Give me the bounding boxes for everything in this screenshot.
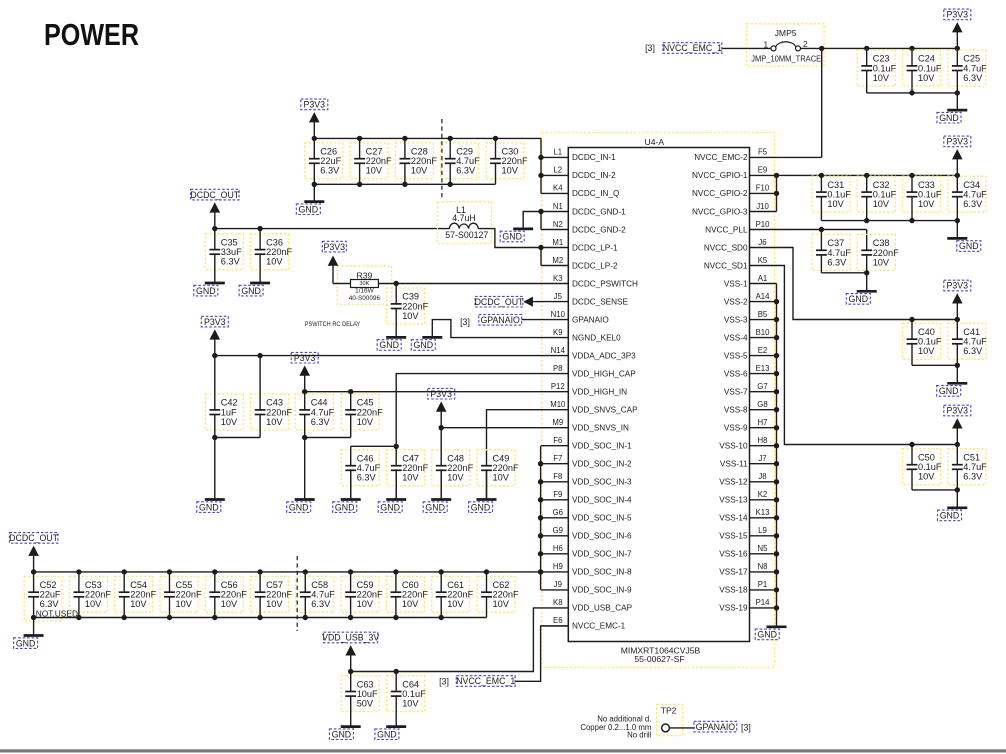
svg-text:10V: 10V	[918, 472, 935, 482]
svg-text:DCDC_OUT: DCDC_OUT	[9, 533, 58, 543]
svg-text:DCDC_GND-2: DCDC_GND-2	[572, 225, 626, 234]
capacitor C54	[115, 572, 157, 618]
note TP2 drill	[580, 715, 651, 740]
svg-text:J5: J5	[554, 292, 563, 301]
junction dot C47 top	[394, 444, 399, 449]
svg-text:C48: C48	[447, 454, 464, 464]
wire C26 bank top rail to DCDC_IN	[314, 138, 541, 193]
svg-text:C61: C61	[447, 580, 464, 590]
svg-text:6.3V: 6.3V	[963, 472, 983, 482]
pin G8 VSS-8	[724, 400, 777, 415]
ground net label GND	[938, 510, 962, 521]
ground	[386, 726, 406, 728]
pin J10 NVCC_GPIO-3	[692, 202, 777, 217]
pin K9 NGND_KEL0	[541, 328, 621, 343]
svg-text:VDD_SNVS_CAP: VDD_SNVS_CAP	[572, 406, 638, 415]
wire VDD_SOC_IN bus	[540, 446, 542, 590]
svg-text:4.7uF: 4.7uF	[311, 590, 335, 600]
svg-text:10V: 10V	[366, 166, 383, 176]
net label P3V3	[291, 352, 318, 363]
ground net label GND	[239, 285, 263, 296]
svg-text:J9: J9	[554, 580, 562, 589]
svg-text:VDD_SOC_IN-1: VDD_SOC_IN-1	[572, 442, 632, 451]
svg-text:NVCC_GPIO-3: NVCC_GPIO-3	[692, 207, 748, 216]
net label DCDC_OUT	[9, 533, 58, 544]
svg-text:10V: 10V	[411, 166, 428, 176]
svg-text:VDD_USB_3V: VDD_USB_3V	[322, 633, 379, 643]
inductor L1 boundary	[437, 202, 491, 244]
ground	[250, 282, 270, 284]
net label P3V3	[428, 388, 455, 399]
capacitor C31	[812, 175, 851, 220]
dnp boundary dashed line (C58)	[296, 556, 298, 631]
svg-text:6.3V: 6.3V	[311, 599, 331, 609]
svg-text:10V: 10V	[493, 473, 510, 483]
svg-text:VSS-7: VSS-7	[724, 388, 748, 397]
svg-text:10V: 10V	[827, 199, 844, 209]
svg-text:K3: K3	[553, 274, 563, 283]
svg-text:N2: N2	[553, 220, 563, 229]
pin K4 DCDC_IN_Q	[541, 184, 619, 199]
svg-text:4.7uF: 4.7uF	[963, 462, 987, 472]
svg-text:JMP_10MM_TRACE: JMP_10MM_TRACE	[751, 53, 821, 63]
svg-text:GPANAIO: GPANAIO	[480, 315, 520, 325]
resistor R39	[349, 271, 381, 302]
pin J9 VDD_SOC_IN-9	[541, 580, 632, 595]
junction dots C52 bank top	[31, 569, 543, 574]
capacitor C34	[948, 175, 987, 220]
svg-text:GND: GND	[199, 502, 219, 512]
svg-text:10V: 10V	[357, 417, 374, 427]
svg-text:C30: C30	[502, 147, 519, 157]
sheet ref [3] GPANAIO	[460, 317, 470, 327]
junction dot C37 top	[819, 227, 824, 232]
svg-text:J7: J7	[758, 454, 766, 463]
net label NVCC_EMC_1 (top)	[663, 43, 722, 54]
svg-text:10uF: 10uF	[357, 689, 378, 699]
svg-text:0.1uF: 0.1uF	[918, 190, 942, 200]
wire NVCC_GPIO bus E9-F10-J10	[776, 175, 778, 211]
jumper JMP5 boundary	[747, 24, 825, 66]
svg-text:P10: P10	[756, 220, 771, 229]
svg-text:10V: 10V	[130, 599, 147, 609]
svg-text:L9: L9	[758, 526, 767, 535]
inductor L1	[445, 205, 488, 240]
junction dots C40 bank top	[909, 317, 960, 322]
svg-text:F10: F10	[756, 184, 770, 193]
svg-text:0.1uF: 0.1uF	[918, 63, 942, 73]
pin G9 VDD_SOC_IN-6	[541, 526, 632, 541]
ground	[947, 490, 967, 508]
ground net label GND	[378, 502, 402, 513]
pin K5 NVCC_SD1	[704, 256, 777, 271]
svg-text:NVCC_EMC-2: NVCC_EMC-2	[694, 153, 748, 162]
ground	[947, 365, 967, 383]
junction dots rail1	[212, 353, 263, 358]
svg-text:6.3V: 6.3V	[827, 257, 847, 267]
pin N1 DCDC_GND-1	[541, 202, 626, 217]
power symbol P3V3	[309, 112, 320, 138]
svg-text:57-S00127: 57-S00127	[445, 230, 488, 240]
ground net label GND	[296, 204, 320, 215]
pin H6 VDD_SOC_IN-7	[541, 544, 632, 559]
junction dots C52 bank bottom	[31, 615, 444, 620]
svg-text:22uF: 22uF	[40, 590, 61, 600]
capacitor C38	[857, 234, 899, 272]
svg-text:K9: K9	[553, 328, 563, 337]
svg-text:C36: C36	[266, 237, 283, 247]
ground net label GND	[957, 241, 981, 252]
svg-text:GND: GND	[332, 729, 352, 739]
IC value MIMXRT1064CVJ5B	[621, 645, 701, 655]
wire TP2 to GPANAIO	[669, 727, 694, 729]
capacitor C58	[296, 572, 335, 618]
svg-text:C38: C38	[873, 238, 890, 248]
svg-text:K5: K5	[758, 256, 768, 265]
capacitor C44	[295, 392, 334, 438]
net label DCDC_OUT	[190, 189, 239, 200]
svg-text:K2: K2	[758, 490, 768, 499]
ground	[477, 469, 497, 499]
wire NGND_KEL0 (K9) to ground	[432, 320, 541, 338]
pin G7 VSS-7	[724, 382, 777, 397]
pin P12 VDD_HIGH_IN	[541, 382, 627, 397]
svg-text:6.3V: 6.3V	[311, 417, 331, 427]
svg-text:4.7uF: 4.7uF	[963, 190, 987, 200]
svg-text:C29: C29	[456, 147, 473, 157]
pin M2 DCDC_LP-2	[541, 256, 618, 271]
svg-text:10V: 10V	[493, 599, 510, 609]
svg-text:H8: H8	[758, 436, 768, 445]
svg-text:DCDC_IN-1: DCDC_IN-1	[572, 153, 616, 162]
svg-text:GND: GND	[379, 340, 399, 350]
junction dots rail2	[302, 389, 353, 394]
title POWER	[44, 18, 139, 52]
test point TP2 boundary	[657, 704, 683, 735]
svg-text:4.7uF: 4.7uF	[357, 463, 381, 473]
jumper JMP5 reference	[775, 28, 797, 38]
svg-text:P8: P8	[553, 364, 563, 373]
svg-text:50V: 50V	[357, 699, 374, 709]
power symbol P3V3 (R39)	[328, 256, 339, 284]
svg-text:A1: A1	[758, 274, 768, 283]
svg-text:220nF: 220nF	[493, 590, 519, 600]
svg-text:M1: M1	[552, 238, 563, 247]
power symbol VDD_USB_3V	[345, 645, 356, 671]
ground	[386, 469, 406, 499]
ground net label GND	[287, 502, 311, 513]
svg-text:K13: K13	[756, 508, 770, 517]
wire JMP5 pin2 to C23 rail	[801, 47, 958, 49]
junction dot C38 bottom	[864, 270, 869, 275]
wire NVCC_EMC_1 to JMP5 pin1	[722, 47, 771, 49]
svg-text:220nF: 220nF	[493, 463, 519, 473]
IC U4-A body (MIMXRT1064CVJ5B)	[568, 148, 749, 642]
capacitor C60	[386, 572, 428, 618]
svg-text:VSS-6: VSS-6	[724, 369, 748, 378]
svg-text:C33: C33	[918, 180, 935, 190]
sheet frame bottom edge	[0, 749, 1006, 752]
wire NVCC_EMC_1 port to E6	[515, 626, 569, 681]
capacitor C39	[387, 284, 429, 338]
junction dots C31 bank top	[819, 173, 960, 178]
svg-text:C56: C56	[221, 580, 238, 590]
test point TP2	[661, 706, 677, 732]
junction dot C42 bottom	[212, 435, 217, 440]
svg-text:GND: GND	[471, 502, 491, 512]
ground	[857, 273, 877, 292]
junction dots C26 bank bottom	[312, 182, 453, 187]
svg-text:6.3V: 6.3V	[963, 199, 983, 209]
junction dots C23 bank bottom	[909, 90, 960, 95]
svg-text:C44: C44	[311, 398, 328, 408]
wire NVCC_GPIO rail (E9)	[777, 174, 958, 176]
pin A14 VSS-2	[724, 292, 777, 307]
wire GPANAIO to N10	[522, 319, 541, 321]
svg-text:E6: E6	[553, 616, 563, 625]
wire C31-C34 bottom rail	[821, 220, 957, 222]
capacitor C35	[205, 229, 243, 283]
wire C23-C25 bottom rail	[867, 92, 958, 94]
power symbol P3V3	[952, 149, 963, 175]
svg-text:C32: C32	[873, 180, 890, 190]
pin G6 VDD_SOC_IN-5	[541, 508, 632, 523]
svg-text:VDD_SOC_IN-8: VDD_SOC_IN-8	[572, 568, 632, 577]
svg-text:VDD_SOC_IN-3: VDD_SOC_IN-3	[572, 478, 632, 487]
svg-text:E9: E9	[758, 166, 768, 175]
net label P3V3 (R39)	[322, 241, 346, 252]
capacitor C24	[903, 48, 942, 93]
wire JMP5 node to F5 NVCC_EMC-2	[777, 48, 822, 157]
capacitor C64	[387, 672, 426, 727]
svg-text:GND: GND	[757, 630, 777, 640]
svg-text:C26: C26	[320, 147, 337, 157]
svg-text:0.1uF: 0.1uF	[873, 63, 897, 73]
svg-text:VSS-10: VSS-10	[719, 442, 748, 451]
ground net label GND	[377, 340, 401, 351]
ground	[24, 618, 44, 636]
svg-text:220nF: 220nF	[266, 247, 292, 257]
ground net label GND	[937, 112, 961, 123]
capacitor C55	[160, 572, 202, 618]
svg-text:VSS-18: VSS-18	[719, 586, 748, 595]
wire DCDC_GND to ground	[523, 212, 541, 230]
svg-text:U4-A: U4-A	[645, 137, 665, 147]
ground	[386, 336, 406, 338]
capacitor C48	[432, 428, 474, 500]
svg-text:10V: 10V	[85, 599, 102, 609]
svg-text:VSS-12: VSS-12	[719, 478, 748, 487]
svg-text:VDD_USB_CAP: VDD_USB_CAP	[572, 604, 633, 613]
svg-text:K8: K8	[553, 598, 563, 607]
ground	[205, 438, 225, 500]
pin K8 VDD_USB_CAP	[541, 598, 633, 613]
svg-text:10V: 10V	[266, 599, 283, 609]
capacitor C59	[341, 572, 383, 618]
net label GPANAIO (N10)	[479, 315, 522, 326]
svg-text:GND: GND	[241, 286, 261, 296]
capacitor C30	[486, 138, 528, 184]
junction dots VSS bus	[774, 299, 779, 611]
ground net label GND	[411, 340, 435, 351]
junction dot C48 top	[439, 425, 444, 430]
pin A1 VSS-1	[724, 274, 777, 289]
net label P3V3	[201, 316, 228, 327]
svg-text:E2: E2	[758, 346, 768, 355]
svg-text:G6: G6	[553, 508, 563, 517]
svg-text:6.3V: 6.3V	[357, 473, 377, 483]
svg-text:F7: F7	[553, 454, 562, 463]
pin H7 VSS-9	[724, 418, 777, 433]
capacitor C53	[69, 572, 111, 618]
svg-text:4.7uF: 4.7uF	[827, 248, 851, 258]
svg-text:L1: L1	[553, 148, 562, 157]
svg-text:10V: 10V	[502, 166, 519, 176]
power symbol P3V3	[299, 365, 310, 391]
svg-text:10V: 10V	[266, 417, 283, 427]
ground	[341, 469, 361, 499]
svg-text:C34: C34	[963, 180, 980, 190]
svg-text:P1: P1	[758, 580, 768, 589]
svg-text:GND: GND	[959, 241, 979, 251]
svg-text:DCDC_IN_Q: DCDC_IN_Q	[572, 189, 619, 198]
svg-text:JMP5: JMP5	[775, 28, 797, 38]
capacitor C62	[477, 572, 519, 618]
ground	[947, 221, 967, 239]
junction dot DCDC_GND-1	[538, 209, 543, 214]
svg-text:C53: C53	[85, 580, 102, 590]
svg-text:6.3V: 6.3V	[320, 166, 340, 176]
capacitor C49	[477, 450, 519, 500]
svg-text:NVCC_EMC_1: NVCC_EMC_1	[456, 676, 515, 686]
net label P3V3	[944, 136, 971, 147]
svg-text:F9: F9	[553, 490, 562, 499]
svg-text:10V: 10V	[918, 73, 935, 83]
pin M10 VDD_SNVS_CAP	[541, 400, 638, 415]
svg-text:10V: 10V	[221, 417, 238, 427]
svg-text:4.7uF: 4.7uF	[311, 407, 335, 417]
svg-text:10V: 10V	[447, 599, 464, 609]
ground	[295, 438, 315, 500]
svg-text:NVCC_SD0: NVCC_SD0	[704, 243, 748, 252]
wire P3V3/C48 to VDD_SNVS_IN (M9)	[441, 427, 541, 429]
svg-text:C64: C64	[402, 679, 419, 689]
svg-text:10V: 10V	[402, 311, 419, 321]
svg-text:C27: C27	[366, 147, 383, 157]
net label P3V3	[944, 280, 971, 291]
pin F8 VDD_SOC_IN-3	[541, 472, 632, 487]
svg-text:C40: C40	[918, 327, 935, 337]
power symbol DCDC_OUT	[210, 202, 221, 228]
svg-text:VDD_SOC_IN-4: VDD_SOC_IN-4	[572, 496, 632, 505]
capacitor C51	[948, 445, 987, 490]
jumper JMP5 value JMP_10MM_TRACE	[751, 53, 821, 63]
svg-text:N10: N10	[551, 310, 566, 319]
svg-text:G9: G9	[553, 526, 563, 535]
svg-text:C49: C49	[493, 454, 510, 464]
wire P3V3 rail to VDD_HIGH_IN (P12)	[305, 391, 541, 393]
net label P3V3	[301, 99, 328, 110]
capacitor C42	[205, 356, 243, 438]
svg-text:4.7uF: 4.7uF	[456, 156, 480, 166]
capacitor C45	[341, 392, 383, 438]
ground net label GND	[333, 502, 357, 513]
resistor R39 boundary	[337, 266, 391, 305]
pin P10 NVCC_PLL	[705, 220, 776, 235]
ground	[341, 726, 361, 728]
wire NVCC_PLL (P10) to C37/C38	[777, 230, 867, 251]
junction dot C44 bottom	[302, 435, 307, 440]
svg-text:DCDC_SENSE: DCDC_SENSE	[572, 297, 629, 306]
svg-text:GPANAIO: GPANAIO	[696, 722, 736, 732]
sheet ref [3] bottom	[439, 677, 449, 687]
svg-text:GND: GND	[299, 204, 319, 214]
svg-text:NVCC_PLL: NVCC_PLL	[705, 225, 748, 234]
svg-text:NVCC_GPIO-1: NVCC_GPIO-1	[692, 171, 748, 180]
pin N14 VDDA_ADC_3P3	[541, 346, 636, 361]
capacitor C32	[857, 175, 896, 220]
svg-text:L2: L2	[553, 166, 562, 175]
svg-text:VSS-19: VSS-19	[719, 604, 748, 613]
svg-text:VDD_SOC_IN-7: VDD_SOC_IN-7	[572, 550, 632, 559]
svg-text:C37: C37	[827, 238, 844, 248]
svg-text:10V: 10V	[873, 73, 890, 83]
pin E13 VSS-6	[724, 364, 777, 379]
svg-text:VDD_HIGH_IN: VDD_HIGH_IN	[572, 388, 627, 397]
svg-text:E13: E13	[756, 364, 770, 373]
svg-text:220nF: 220nF	[447, 463, 473, 473]
svg-text:220nF: 220nF	[411, 156, 437, 166]
wire C40-C41 bottom rail	[912, 364, 957, 366]
power symbol P3V3	[210, 329, 221, 355]
ground net label GND	[755, 629, 779, 640]
svg-text:GND: GND	[939, 113, 959, 123]
svg-text:F5: F5	[758, 148, 768, 157]
ground net label GND	[423, 502, 447, 513]
net label P3V3	[944, 9, 971, 20]
svg-text:GND: GND	[196, 286, 216, 296]
pin P1 VSS-18	[719, 580, 776, 595]
ground	[513, 227, 533, 230]
svg-text:0.1uF: 0.1uF	[873, 190, 897, 200]
svg-text:N14: N14	[551, 346, 566, 355]
net label DCDC_OUT (DCDC_SENSE port)	[475, 296, 524, 307]
pin J8 VSS-12	[719, 472, 776, 487]
svg-text:0.1uF: 0.1uF	[402, 689, 426, 699]
wire NVCC_SD0 (J6) to C40/C41 rail	[777, 248, 958, 320]
svg-text:220nF: 220nF	[366, 156, 392, 166]
capacitor C25	[948, 48, 987, 93]
pin F6 VDD_SOC_IN-1	[541, 436, 632, 451]
svg-text:NVCC_SD1: NVCC_SD1	[704, 261, 748, 270]
svg-text:4.7uF: 4.7uF	[963, 63, 987, 73]
svg-text:C43: C43	[266, 398, 283, 408]
svg-text:C57: C57	[266, 580, 283, 590]
pin E6 NVCC_EMC-1	[541, 616, 626, 631]
svg-text:10V: 10V	[918, 346, 935, 356]
ground net label GND	[329, 729, 353, 740]
svg-text:10V: 10V	[873, 257, 890, 267]
pin F10 NVCC_GPIO-2	[692, 184, 777, 199]
pin B5 VSS-3	[724, 310, 777, 325]
svg-text:R39: R39	[357, 271, 373, 281]
pin L2 DCDC_IN-2	[541, 166, 616, 181]
svg-text:6.3V: 6.3V	[963, 73, 983, 83]
wire C50-C51 bottom rail	[912, 489, 957, 491]
svg-text:C60: C60	[402, 580, 419, 590]
capacitor C27	[350, 138, 392, 184]
power symbol P3V3	[952, 293, 963, 319]
